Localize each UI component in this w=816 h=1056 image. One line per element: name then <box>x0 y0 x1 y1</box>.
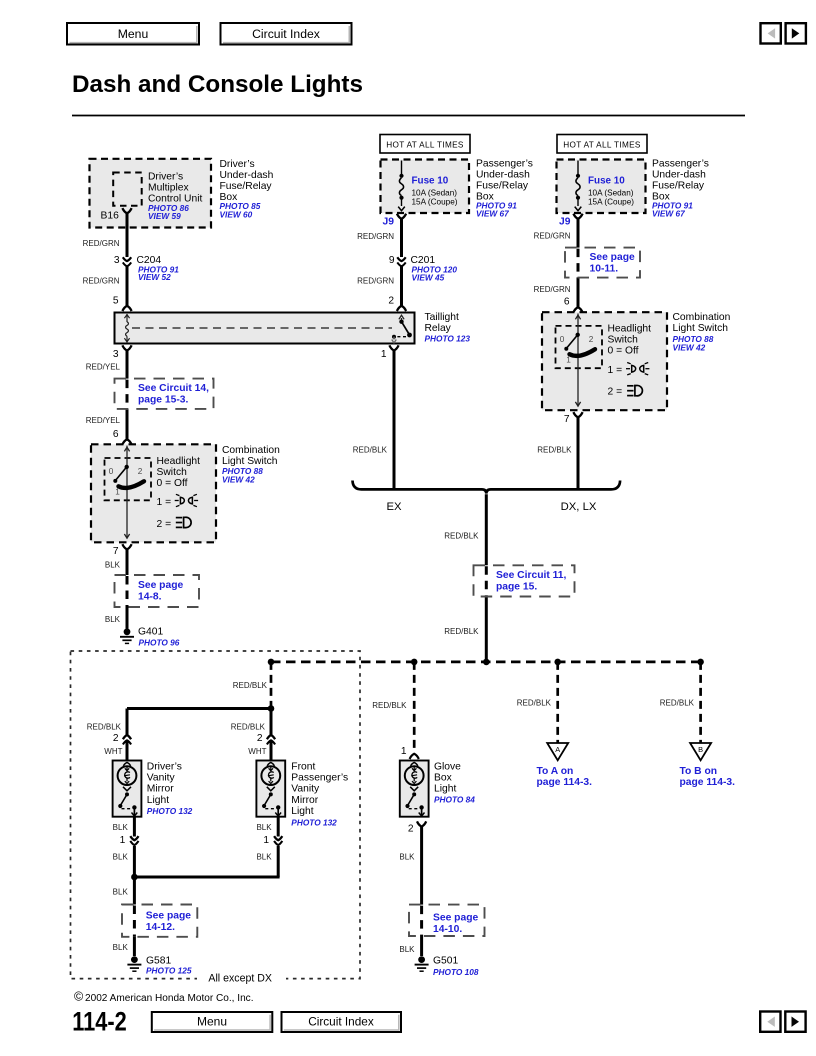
svg-text:14-8.: 14-8. <box>138 591 162 602</box>
svg-text:1: 1 <box>120 835 126 846</box>
svg-text:Vanity: Vanity <box>147 773 176 784</box>
svg-text:EX: EX <box>386 501 402 513</box>
svg-text:BLK: BLK <box>105 561 121 570</box>
svg-text:Headlight: Headlight <box>157 456 201 467</box>
svg-text:To B on: To B on <box>680 766 718 777</box>
reference box: See page 14-10. <box>409 905 485 936</box>
svg-text:Driver’s: Driver’s <box>148 171 183 182</box>
svg-text:RED/GRN: RED/GRN <box>534 232 571 241</box>
pin B16 <box>122 208 131 213</box>
wire BLK (left switch to G401, dashed through see-page box) <box>126 549 129 575</box>
svg-text:0 = Off: 0 = Off <box>157 478 188 489</box>
nav button previous (bottom, disabled) <box>760 1012 780 1032</box>
junction node (To B branch, right end) <box>697 659 704 666</box>
wire BLK (to ground tee) <box>133 846 136 877</box>
svg-text:VIEW 59: VIEW 59 <box>148 211 181 221</box>
svg-text:2: 2 <box>113 733 119 744</box>
svg-text:0: 0 <box>560 335 565 344</box>
svg-text:Passenger’s: Passenger’s <box>652 159 709 170</box>
svg-text:Light: Light <box>291 806 313 817</box>
label Passenger's Under-dash Fuse/Relay Box (right) <box>652 159 709 219</box>
reference box: See page 14-8. <box>115 575 200 607</box>
button Circuit Index (top) <box>221 23 352 45</box>
relay: Taillight Relay box <box>115 313 415 344</box>
svg-text:PHOTO 132: PHOTO 132 <box>147 806 193 816</box>
svg-text:WHT: WHT <box>248 747 266 756</box>
svg-text:6: 6 <box>113 429 119 440</box>
label Front Passenger's Vanity Mirror Light <box>291 762 348 828</box>
svg-text:BLK: BLK <box>113 823 129 832</box>
svg-text:Switch: Switch <box>157 467 188 478</box>
svg-text:Light: Light <box>147 795 169 806</box>
svg-text:RED/BLK: RED/BLK <box>353 445 388 454</box>
reference box: See Circuit 11, page 15. <box>474 565 575 596</box>
svg-text:Mirror: Mirror <box>147 784 174 795</box>
svg-text:RED/BLK: RED/BLK <box>444 531 479 540</box>
switch: Combination Light Switch (right) outer dashed box <box>542 312 667 410</box>
svg-text:7: 7 <box>564 414 570 425</box>
svg-text:Taillight: Taillight <box>425 312 459 323</box>
svg-text:Glove: Glove <box>434 762 461 773</box>
wire BLK (passenger's vanity pin 1) <box>277 817 280 837</box>
reference box: See Circuit 14, page 15-3. <box>115 379 214 409</box>
svg-text:Menu: Menu <box>118 27 149 41</box>
svg-text:Menu: Menu <box>197 1015 227 1029</box>
svg-text:BLK: BLK <box>113 887 129 896</box>
icon headlights (right, 2=) <box>627 385 642 395</box>
fuse Fuse 10 (right) symbol <box>575 161 582 211</box>
svg-text:G501: G501 <box>433 955 458 966</box>
svg-text:page 15.: page 15. <box>496 582 537 593</box>
junction node (ground tee) <box>131 874 138 881</box>
relay switch contact (pins 2-1) <box>392 315 412 343</box>
svg-text:HOT AT ALL TIMES: HOT AT ALL TIMES <box>563 140 641 149</box>
wire RED/BLK (dashed drop to B) <box>699 662 702 743</box>
lamp: Driver's Vanity Mirror Light <box>113 761 142 817</box>
nav button previous (top, disabled) <box>761 23 781 43</box>
bus bar EX / DX,LX (brace) <box>353 481 621 494</box>
wire RED/GRN (middle, J9 to C201) <box>400 219 403 257</box>
reference box: See page 14-12. <box>122 905 197 937</box>
wire RED/BLK (relay pin 1 to bus bar) <box>393 351 396 489</box>
svg-text:5: 5 <box>113 295 119 306</box>
off-page connector A <box>547 743 568 760</box>
wire RED/YEL (relay pin 3 down, dashed through see-circuit box) <box>126 351 129 379</box>
value label Fuse 10 / 10A 15A (middle) <box>412 175 458 206</box>
off-page connector B <box>690 743 711 760</box>
svg-text:page 114-3.: page 114-3. <box>537 777 593 788</box>
svg-text:VIEW 67: VIEW 67 <box>652 209 685 219</box>
label Driver's Under-dash Fuse/Relay Box <box>220 159 274 220</box>
svg-text:RED/BLK: RED/BLK <box>517 699 552 708</box>
button Circuit Index (bottom) <box>282 1012 402 1032</box>
label Driver's Vanity Mirror Light <box>147 762 193 816</box>
svg-text:1: 1 <box>401 746 407 757</box>
icon headlights (left, 2=) <box>176 517 191 527</box>
wire RED/GRN (right, J9 down, dashed through see-page box) <box>577 219 580 248</box>
svg-text:VIEW 67: VIEW 67 <box>476 209 509 219</box>
svg-text:2: 2 <box>138 467 143 476</box>
svg-text:1: 1 <box>381 349 387 360</box>
label Driver's Multiplex Control Unit <box>148 171 203 221</box>
wire RED/GRN (middle, C201 to relay pin 2) <box>400 266 403 306</box>
ground G401 <box>120 627 180 648</box>
svg-text:Light Switch: Light Switch <box>673 323 729 334</box>
label Combination Light Switch (left) <box>222 445 280 485</box>
label To A on page 114-3. <box>537 766 593 788</box>
svg-text:WHT: WHT <box>104 747 122 756</box>
button Menu (top) <box>67 23 199 45</box>
svg-text:7: 7 <box>113 546 119 557</box>
svg-text:Mirror: Mirror <box>291 795 318 806</box>
svg-text:1: 1 <box>115 488 120 497</box>
svg-text:Dash and Console Lights: Dash and Console Lights <box>72 71 363 98</box>
svg-text:See page: See page <box>433 913 478 924</box>
svg-text:Under-dash: Under-dash <box>652 170 706 181</box>
junction node (To A branch) <box>554 659 561 666</box>
svg-text:RED/GRN: RED/GRN <box>83 239 120 248</box>
svg-text:J9: J9 <box>559 216 571 227</box>
junction node (center feed) <box>483 659 490 666</box>
Passenger's Under-dash Fuse/Relay Box (middle, dashed) <box>381 160 470 214</box>
svg-text:2: 2 <box>388 295 394 306</box>
wire BLK (driver's vanity pin 1) <box>133 817 136 837</box>
headlight switch rotary symbol (right) <box>556 314 603 407</box>
svg-text:Fuse 10: Fuse 10 <box>588 175 625 186</box>
enclosure: All except DX (dotted) <box>71 651 361 986</box>
svg-text:Under-dash: Under-dash <box>476 170 530 181</box>
ground G581 <box>127 955 191 975</box>
svg-text:page 15-3.: page 15-3. <box>138 395 189 406</box>
svg-text:10A (Sedan): 10A (Sedan) <box>588 188 634 197</box>
svg-text:PHOTO 125: PHOTO 125 <box>146 965 192 975</box>
svg-text:RED/BLK: RED/BLK <box>372 701 407 710</box>
svg-text:©: © <box>74 990 84 1004</box>
svg-text:See Circuit 14,: See Circuit 14, <box>138 383 209 394</box>
svg-text:BLK: BLK <box>105 615 121 624</box>
svg-text:Box: Box <box>434 773 453 784</box>
svg-text:RED/BLK: RED/BLK <box>231 723 266 732</box>
svg-text:Driver’s: Driver’s <box>220 159 255 170</box>
label Glove Box Light <box>434 762 475 805</box>
svg-text:A: A <box>555 745 560 754</box>
svg-text:PHOTO 108: PHOTO 108 <box>433 967 479 977</box>
svg-text:Circuit Index: Circuit Index <box>308 1015 374 1029</box>
svg-text:3: 3 <box>114 255 120 266</box>
headlight switch rotary symbol (left) <box>105 446 152 539</box>
relay coil (pins 5-3) <box>124 314 129 342</box>
svg-text:Light: Light <box>434 784 456 795</box>
svg-text:PHOTO 123: PHOTO 123 <box>425 334 471 344</box>
wire (vanity tee horizontal) <box>127 707 272 710</box>
svg-text:RED/BLK: RED/BLK <box>537 445 572 454</box>
svg-text:114-2: 114-2 <box>72 1006 127 1036</box>
wire RED/BLK (dashed drop to glove box light) <box>413 662 416 753</box>
pin J9 (middle) <box>397 214 406 219</box>
svg-text:2 =: 2 = <box>608 387 623 398</box>
wire RED/BLK / WHT (driver's vanity feed) <box>126 709 129 735</box>
label Taillight Relay <box>425 312 471 344</box>
svg-text:9: 9 <box>389 255 395 266</box>
svg-text:Front: Front <box>291 762 315 773</box>
svg-text:14-10.: 14-10. <box>433 924 462 935</box>
svg-text:6: 6 <box>564 297 570 308</box>
svg-text:RED/GRN: RED/GRN <box>83 277 120 286</box>
nav button next (top) <box>786 23 806 43</box>
svg-text:VIEW 42: VIEW 42 <box>673 342 706 352</box>
svg-text:See page: See page <box>146 911 191 922</box>
junction node (left end) <box>268 659 275 666</box>
svg-text:J9: J9 <box>383 216 395 227</box>
label Headlight Switch positions (right) <box>608 324 652 398</box>
svg-text:To A on: To A on <box>537 766 574 777</box>
svg-text:Headlight: Headlight <box>608 324 652 335</box>
switch: Combination Light Switch (left) outer dashed box <box>91 444 216 542</box>
Driver's Under-dash Fuse/Relay Box (outer dashed box) <box>90 159 212 228</box>
svg-text:2002 American Honda Motor Co.,: 2002 American Honda Motor Co., Inc. <box>85 993 254 1004</box>
svg-text:BLK: BLK <box>256 823 272 832</box>
horizontal rule <box>72 115 745 117</box>
wire BLK (passenger side down to tee) <box>277 846 280 877</box>
junction node (vanity tee) <box>268 705 275 712</box>
label To B on page 114-3. <box>680 766 736 788</box>
Passenger's Under-dash Fuse/Relay Box (right, dashed) <box>557 160 646 214</box>
svg-text:Under-dash: Under-dash <box>220 170 274 181</box>
svg-text:Passenger’s: Passenger’s <box>291 773 348 784</box>
svg-text:PHOTO 96: PHOTO 96 <box>139 638 180 648</box>
pin J9 (right) <box>573 214 582 219</box>
svg-text:15A (Coupe): 15A (Coupe) <box>588 197 634 206</box>
svg-text:See page: See page <box>138 580 183 591</box>
svg-text:RED/GRN: RED/GRN <box>534 285 571 294</box>
wire RED/BLK (right switch to bus) <box>577 417 580 488</box>
svg-text:Driver’s: Driver’s <box>147 762 182 773</box>
svg-text:Fuse/Relay: Fuse/Relay <box>652 181 705 192</box>
svg-text:RED/BLK: RED/BLK <box>233 681 268 690</box>
Driver's Multiplex Control Unit (inner dashed box) <box>113 173 142 206</box>
svg-text:Vanity: Vanity <box>291 784 320 795</box>
button Menu (bottom) <box>152 1012 272 1032</box>
wire (ground tee horizontal) <box>134 876 279 879</box>
svg-text:B: B <box>698 745 703 754</box>
svg-text:G401: G401 <box>138 627 163 638</box>
svg-text:See Circuit 11,: See Circuit 11, <box>496 570 567 581</box>
wire distribution line (dashed, RED/BLK) <box>271 661 701 664</box>
svg-text:Combination: Combination <box>673 312 731 323</box>
svg-text:RED/GRN: RED/GRN <box>357 277 394 286</box>
svg-text:VIEW 45: VIEW 45 <box>412 272 445 282</box>
svg-text:2 =: 2 = <box>157 519 172 530</box>
svg-text:0: 0 <box>109 467 114 476</box>
value label Fuse 10 / 10A 15A (right) <box>588 175 634 206</box>
pin 1 connector (passenger's vanity) <box>274 836 282 840</box>
pin 2 (glove box light) <box>417 821 426 826</box>
svg-text:All except DX: All except DX <box>208 973 272 985</box>
svg-text:1: 1 <box>566 356 571 365</box>
label Headlight Switch positions (left) <box>157 456 201 530</box>
svg-text:See page: See page <box>590 252 635 263</box>
ground G501 <box>415 955 479 977</box>
lamp: Front Passenger's Vanity Mirror Light <box>256 761 285 817</box>
svg-text:RED/BLK: RED/BLK <box>87 723 122 732</box>
wire RED/BLK (dashed drop to vanity pair) <box>270 662 273 709</box>
reference box: See page 10-11. <box>565 248 640 278</box>
svg-text:Circuit Index: Circuit Index <box>252 27 320 41</box>
svg-text:Fuse/Relay: Fuse/Relay <box>220 181 273 192</box>
svg-text:3: 3 <box>113 349 119 360</box>
svg-text:PHOTO 132: PHOTO 132 <box>291 817 337 827</box>
svg-text:BLK: BLK <box>113 943 129 952</box>
pin 2 connector (driver's vanity) <box>123 735 131 739</box>
wire BLK (glove to G501, dashed through see-page box) <box>420 827 423 905</box>
wire RED/GRN (B16 to C204) <box>126 213 129 257</box>
svg-text:PHOTO 84: PHOTO 84 <box>434 795 475 805</box>
pin 1 connector (driver's vanity) <box>130 836 138 840</box>
wire RED/BLK (dashed drop to A) <box>556 662 559 743</box>
svg-text:VIEW 52: VIEW 52 <box>138 272 171 282</box>
svg-text:Combination: Combination <box>222 445 280 456</box>
fuse Fuse 10 (middle) symbol <box>398 161 405 211</box>
icon parking lights (right, 1=) <box>626 363 649 375</box>
wire RED/GRN (C204 to relay pin 5) <box>126 266 129 306</box>
svg-text:1 =: 1 = <box>608 365 623 376</box>
connector C204 <box>114 255 179 282</box>
svg-text:1: 1 <box>263 835 269 846</box>
svg-text:2: 2 <box>408 824 414 835</box>
junction node (glove branch) <box>411 659 418 666</box>
svg-text:B16: B16 <box>101 211 120 222</box>
lamp: Glove Box Light <box>400 761 429 817</box>
relay internal dashed link <box>132 327 392 329</box>
svg-text:RED/BLK: RED/BLK <box>660 699 695 708</box>
svg-text:HOT AT ALL TIMES: HOT AT ALL TIMES <box>386 140 464 149</box>
svg-text:Multiplex: Multiplex <box>148 182 189 193</box>
label Combination Light Switch (right) <box>673 312 731 352</box>
svg-text:Relay: Relay <box>425 323 452 334</box>
svg-text:14-12.: 14-12. <box>146 922 175 933</box>
svg-text:BLK: BLK <box>113 853 129 862</box>
svg-text:10-11.: 10-11. <box>590 263 619 274</box>
svg-text:BLK: BLK <box>256 853 272 862</box>
svg-text:1 =: 1 = <box>157 497 172 508</box>
icon parking lights (left, 1=) <box>175 494 198 506</box>
svg-text:2: 2 <box>589 335 594 344</box>
svg-text:VIEW 42: VIEW 42 <box>222 475 255 485</box>
nav button next (bottom) <box>785 1012 805 1032</box>
wire BLK (tee to G581, dashed through see-page box) <box>133 877 136 905</box>
svg-text:0 = Off: 0 = Off <box>608 346 639 357</box>
svg-text:2: 2 <box>257 733 263 744</box>
wire RED/BLK / WHT (passenger's vanity feed) <box>270 709 273 735</box>
svg-text:RED/YEL: RED/YEL <box>86 363 121 372</box>
svg-text:BLK: BLK <box>399 945 415 954</box>
svg-text:DX, LX: DX, LX <box>561 501 597 513</box>
svg-text:VIEW 60: VIEW 60 <box>220 210 253 220</box>
label Passenger's Under-dash Fuse/Relay Box (middle) <box>476 159 533 219</box>
wire RED/BLK (bus bar tail down, dashed through see-circuit box) <box>485 494 488 565</box>
svg-text:RED/BLK: RED/BLK <box>444 627 479 636</box>
svg-text:RED/GRN: RED/GRN <box>357 232 394 241</box>
svg-text:15A (Coupe): 15A (Coupe) <box>412 197 458 206</box>
svg-text:page 114-3.: page 114-3. <box>680 777 736 788</box>
power tag HOT AT ALL TIMES (right) <box>557 135 647 154</box>
svg-text:10A (Sedan): 10A (Sedan) <box>412 188 458 197</box>
connector C201 <box>389 255 458 283</box>
svg-text:Fuse 10: Fuse 10 <box>412 175 449 186</box>
svg-text:Passenger’s: Passenger’s <box>476 159 533 170</box>
svg-text:BLK: BLK <box>399 853 415 862</box>
svg-text:Fuse/Relay: Fuse/Relay <box>476 181 529 192</box>
svg-text:RED/YEL: RED/YEL <box>86 416 121 425</box>
svg-text:Switch: Switch <box>608 335 639 346</box>
pin 2 connector (passenger's vanity) <box>267 735 275 739</box>
power tag HOT AT ALL TIMES (middle) <box>380 135 470 154</box>
